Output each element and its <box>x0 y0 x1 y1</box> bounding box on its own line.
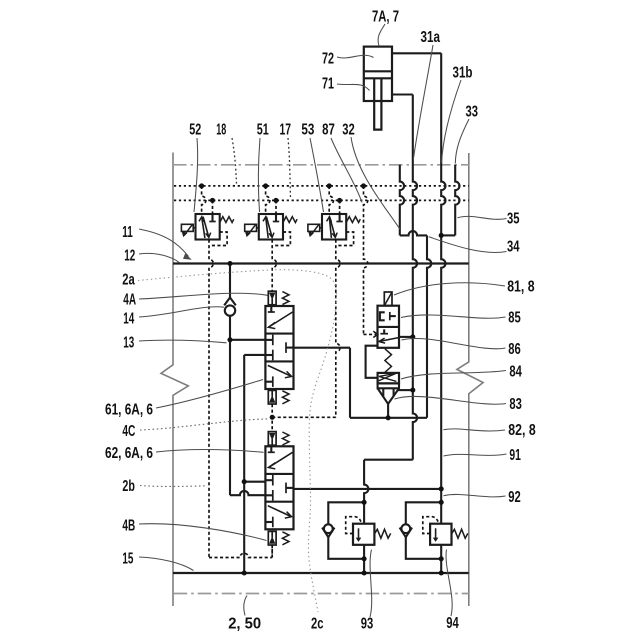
svg-text:4A: 4A <box>123 292 136 309</box>
wire: stub dotted18 to valve 51 <box>266 186 270 214</box>
svg-text:7A, 7: 7A, 7 <box>372 9 399 26</box>
svg-text:91: 91 <box>509 447 521 464</box>
supply line 12 (upper bus) <box>173 262 469 264</box>
svg-text:2, 50: 2, 50 <box>228 616 261 633</box>
main valve 61, 6A, 6 <box>265 306 293 389</box>
pilot passage (bottom dashed run to valve62 lower pilot) <box>209 553 272 557</box>
check valve 14 <box>224 298 236 306</box>
junction dots <box>199 183 204 188</box>
reducing valve 84 <box>378 373 399 384</box>
leader lines <box>378 24 385 46</box>
svg-text:72: 72 <box>322 51 334 68</box>
valve62 lower pilot cap <box>268 531 276 545</box>
wire 33 / 35 (x=455.2 up to boundary) <box>455 165 459 236</box>
wire 31a / 82 (vertical from rod port, x=412.8) <box>413 95 417 460</box>
wire 34 (jog at y=235.4, left pair) <box>400 231 427 235</box>
wire: valve61 right port to regulator group <box>294 347 351 349</box>
svg-text:15: 15 <box>122 550 133 567</box>
svg-text:17: 17 <box>280 121 292 138</box>
pilot passage 4B (below valve62) <box>271 545 273 557</box>
wire: valve61 lower port down to valve62 upper port (x=244.2) <box>244 354 265 356</box>
svg-text:86: 86 <box>508 341 521 358</box>
machine casing boundary line (right frame) <box>457 153 483 606</box>
svg-text:85: 85 <box>508 309 521 326</box>
relief valve 93 <box>328 502 364 559</box>
svg-text:61, 6A, 6: 61, 6A, 6 <box>105 401 153 418</box>
arrowhead of pilot 87 into valve 85 <box>373 331 377 337</box>
valve61 upper pilot cap <box>268 291 276 305</box>
wire 34 (jog at y=235.4, right pair) <box>441 234 455 236</box>
solenoid valve 53 <box>322 214 346 240</box>
svg-text:12: 12 <box>124 247 135 264</box>
wire: stub dotted17 to valve 52 <box>212 200 214 214</box>
svg-text:34: 34 <box>507 238 520 255</box>
svg-text:94: 94 <box>446 615 459 632</box>
wire: branch to valve61 middle port <box>230 339 265 341</box>
svg-text:4C: 4C <box>122 423 135 440</box>
svg-text:51: 51 <box>257 121 269 138</box>
wire: cylinder rod port to line 31a <box>392 93 413 95</box>
wire: cylinder head port to line 31b <box>392 52 441 54</box>
svg-text:32: 32 <box>342 121 355 138</box>
valve61 upper spring <box>282 292 289 305</box>
relief valve 94 <box>406 502 441 559</box>
svg-text:2b: 2b <box>122 478 134 495</box>
pilot line 17 (lower dotted) <box>174 199 469 201</box>
valve62 lower spring <box>282 532 289 545</box>
wire: stub dotted17 to valve 51 <box>275 200 277 214</box>
svg-text:87: 87 <box>322 121 335 138</box>
wire: x=427 down to relief junction line <box>427 235 431 417</box>
pilot line 18 (upper dotted) <box>174 185 469 187</box>
region boundary 2a / 2c (dotted) <box>138 270 336 612</box>
pilot passage branch into 4C node <box>274 416 336 418</box>
svg-text:35: 35 <box>507 210 520 227</box>
svg-text:71: 71 <box>322 76 334 93</box>
svg-text:53: 53 <box>301 121 314 138</box>
svg-text:13: 13 <box>123 335 134 352</box>
valve61 lower spring <box>282 391 289 404</box>
top boundary chain line <box>173 164 469 166</box>
svg-text:31b: 31b <box>453 65 473 82</box>
wire: relief93 column (x=364.1) <box>364 460 368 524</box>
svg-text:14: 14 <box>123 311 134 328</box>
valve62 upper spring <box>282 432 289 445</box>
svg-text:82, 8: 82, 8 <box>508 422 536 439</box>
svg-text:92: 92 <box>508 489 521 506</box>
wire: x=230 to valve62 lower middle port <box>230 491 265 495</box>
solenoid valve 51 <box>259 214 283 240</box>
valve86 lower square symbols <box>383 329 385 333</box>
wire 91: valve62 right port to x=441 <box>294 488 442 490</box>
valve62 upper pilot cap <box>268 432 276 446</box>
svg-text:4B: 4B <box>122 518 135 535</box>
tank line 15 (lower bus) <box>173 572 469 574</box>
pilot passage 4C (between valve61 and valve62) <box>271 404 273 431</box>
wire: jog from 31a line down to relief 93 column <box>364 459 413 461</box>
svg-text:93: 93 <box>361 615 374 632</box>
svg-text:18: 18 <box>216 121 226 138</box>
wire: stub dotted18 to valve 52 <box>202 186 206 214</box>
wire: valve86 left loop to valve 84 <box>366 346 378 378</box>
arrowhead of leader 11 <box>183 253 192 259</box>
svg-text:52: 52 <box>189 121 201 138</box>
valve85 upper square symbols <box>380 312 385 320</box>
svg-text:81, 8: 81, 8 <box>507 279 535 296</box>
wire: stub dotted17 to valve 53 <box>339 200 341 214</box>
wire: stub dotted18 to valve 53 <box>329 186 333 214</box>
pilot passage 2b (valve52 output down, x=209) <box>209 240 213 558</box>
machine casing boundary line 11 (left frame) <box>161 153 188 607</box>
svg-text:33: 33 <box>466 104 479 121</box>
wire 31b / passage to relief 94 (x=441.2) <box>441 53 445 523</box>
svg-text:2a: 2a <box>122 271 135 288</box>
main valve 62, 6A, 6 <box>265 446 293 529</box>
piston 72 <box>364 70 392 72</box>
svg-text:84: 84 <box>509 364 522 381</box>
valve61 lower pilot cap <box>268 390 276 404</box>
wire 32 (x=399.8 up to boundary) <box>400 165 404 236</box>
cylinder 7A, 7 body <box>364 47 392 101</box>
wire: funnel outlet down to header <box>387 404 389 418</box>
pilot passage (valve53 output down, x=335.8) <box>336 240 340 418</box>
spring below valve 86 <box>385 349 392 373</box>
pilot passage 4A (valve51 output to valve61 upper pilot) <box>272 240 276 292</box>
solenoid 81, 8 (on valve 85) <box>384 292 392 306</box>
wire: valve84 right port <box>397 389 413 391</box>
svg-text:83: 83 <box>509 396 522 413</box>
pilot passage 87 (dotted18 down to valve 85) <box>364 186 368 335</box>
solenoid valve 52 <box>196 214 220 240</box>
svg-text:62, 6A, 6: 62, 6A, 6 <box>105 445 153 462</box>
valve 85 / 86 body <box>378 306 400 348</box>
svg-text:2c: 2c <box>311 615 324 632</box>
wire: valve86 right port <box>399 336 413 338</box>
relief 83 (funnel) <box>378 388 399 404</box>
wire: header line to relief 83 (y=417.8) <box>350 417 427 419</box>
svg-text:11: 11 <box>122 224 133 241</box>
bottom boundary chain line 2,50 <box>174 593 469 595</box>
svg-text:31a: 31a <box>421 29 441 46</box>
wire 13 (from bus 12 down to valve 62, x=230) <box>229 264 231 496</box>
piston rod 71 <box>374 78 381 129</box>
